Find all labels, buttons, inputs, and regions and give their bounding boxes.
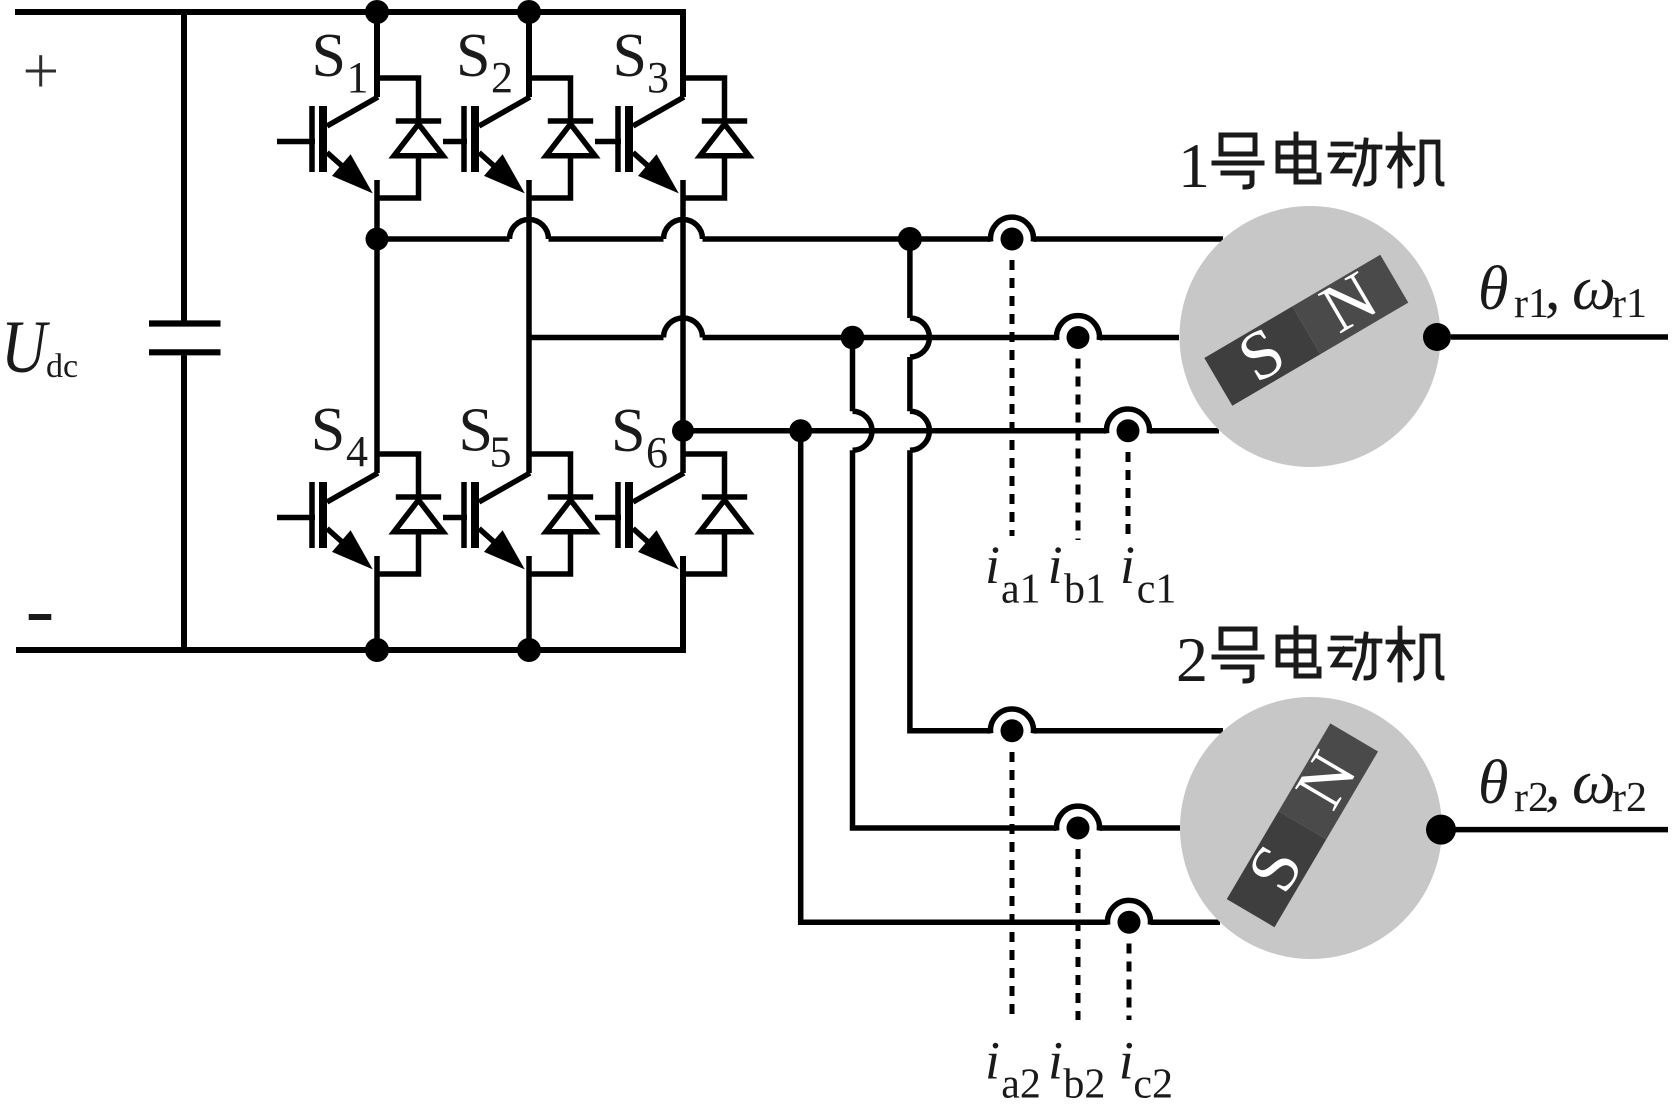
svg-text:S: S (311, 396, 345, 464)
wire DC+ to capacitor (181, 12, 187, 321)
wire M2 shaft output (1455, 827, 1668, 833)
wire motor2 b-phase branch (from phase B down and right) (853, 338, 1181, 829)
motor M1 rotor magnet N pole (1292, 255, 1408, 354)
wire phase-C leg midpoint (S3 emitter to S6 collector) (680, 180, 686, 473)
label + (DC positive) (26, 55, 56, 86)
svg-text:r2: r2 (1514, 775, 1549, 821)
junction dot phase C tap at S3 leg (672, 420, 694, 442)
junction dot DC+ rail / S2 (517, 0, 541, 24)
svg-text:a2: a2 (1001, 1062, 1041, 1108)
junction dot DC- rail / S5 (517, 638, 541, 662)
svg-text:i: i (1119, 1031, 1134, 1091)
wire M1 shaft output (1451, 334, 1668, 340)
svg-text:5: 5 (490, 428, 512, 477)
wire dashed sense line ic2 (1127, 944, 1132, 1021)
junction dot DC- rail / S4 (365, 638, 389, 662)
wire dashed sense line ia2 (1010, 752, 1015, 1020)
wire S2 collector from DC+ (526, 12, 532, 97)
transistor S4 (IGBT) (277, 473, 378, 569)
junction dot phase C to motor2 branch (789, 419, 812, 442)
svg-text:i: i (1048, 1031, 1063, 1091)
svg-text:r1: r1 (1514, 281, 1549, 327)
current sensor ic2 (1108, 900, 1151, 933)
svg-text:3: 3 (647, 53, 669, 102)
wire S5 emitter to DC- rail (526, 556, 532, 650)
svg-text:S: S (312, 22, 346, 90)
wire dashed sense line ib2 (1076, 849, 1081, 1020)
wire motor2 a-phase branch (from phase A down and right) (910, 239, 1223, 731)
motor M2 rotor magnet S pole (1215, 717, 1385, 932)
motor M1 shaft dot (1423, 323, 1451, 351)
motor M2 stator (grey circle) (1180, 697, 1442, 959)
svg-text:2: 2 (491, 53, 513, 102)
svg-text:b1: b1 (1064, 567, 1106, 613)
motor M2 rotor magnet N pole (1279, 723, 1379, 839)
motor M2 shaft dot (1426, 815, 1456, 845)
motor M1 rotor magnet S pole (1198, 243, 1413, 413)
wire phase A (motor 1 a-phase) (377, 220, 1223, 240)
wire capacitor to DC- (181, 355, 187, 650)
current sensor ic1 (1107, 409, 1150, 442)
current sensor ib2 (1057, 806, 1100, 839)
wire phase C (motor 1 c-phase) (683, 428, 1219, 434)
wire motor2 c-phase branch (from phase C down and right) (801, 431, 1220, 922)
wire phase B (motor 1 b-phase) (529, 318, 1179, 337)
svg-text:,: , (1545, 749, 1561, 817)
junction dot DC+ rail / S1 (365, 0, 389, 24)
junction dot phase B to motor2 branch (841, 326, 865, 350)
svg-text:1: 1 (347, 53, 369, 102)
svg-text:dc: dc (46, 348, 78, 385)
svg-text:c2: c2 (1133, 1062, 1173, 1108)
svg-text:θ: θ (1478, 749, 1508, 817)
label theta_r2, omega_r2 (1478, 749, 1647, 821)
svg-text:θ: θ (1478, 255, 1508, 323)
svg-text:ω: ω (1572, 255, 1616, 323)
wire DC- bottom rail with corner up to S6 emitter (16, 556, 683, 650)
transistor S3 (IGBT) (595, 97, 684, 193)
wire phase-A leg midpoint (S1 emitter to S4 collector) (374, 180, 380, 473)
svg-text:c1: c1 (1137, 567, 1177, 613)
junction dot phase A to motor2 branch (898, 227, 922, 251)
wire phase-B leg midpoint (S2 emitter to S5 collector) (526, 180, 532, 473)
wire dashed sense line ib1 (1076, 359, 1081, 541)
svg-text:ω: ω (1572, 749, 1616, 817)
svg-text:i: i (985, 1031, 1000, 1091)
svg-text:2: 2 (1176, 624, 1208, 695)
transistor S2 (IGBT) (443, 97, 530, 193)
svg-text:S: S (611, 397, 645, 465)
svg-text:1: 1 (1178, 130, 1210, 201)
svg-text:r1: r1 (1612, 281, 1647, 327)
motor M1 stator (grey circle) (1180, 206, 1441, 467)
svg-text:b2: b2 (1063, 1062, 1105, 1108)
svg-text:U: U (1, 305, 50, 388)
diode D4 (antiparallel) (377, 454, 443, 574)
svg-text:i: i (1120, 535, 1135, 595)
transistor S6 (IGBT) (595, 473, 684, 569)
label - (DC negative) (29, 614, 52, 620)
transistor S5 (IGBT) (443, 473, 530, 569)
svg-text:r2: r2 (1612, 775, 1647, 821)
svg-text:a1: a1 (1001, 567, 1041, 613)
wire S1 collector from DC+ (374, 12, 380, 97)
wire dashed sense line ic1 (1126, 452, 1131, 540)
diode D1 (antiparallel) (377, 78, 443, 198)
transistor S1 (IGBT) (277, 97, 378, 193)
diode D5 (antiparallel) (529, 454, 595, 574)
diode D6 (antiparallel) (683, 454, 749, 574)
wire S4 emitter to DC- rail (374, 556, 380, 650)
svg-text:6: 6 (646, 428, 668, 477)
wire dashed sense line ia1 (1010, 260, 1015, 536)
svg-text:S: S (613, 22, 647, 90)
diode D2 (antiparallel) (529, 78, 595, 198)
svg-text:i: i (985, 535, 1000, 595)
svg-text:4: 4 (346, 427, 368, 476)
svg-text:,: , (1545, 255, 1561, 323)
junction dot phase A node (366, 228, 389, 251)
svg-text:i: i (1048, 535, 1063, 595)
svg-text:S: S (456, 22, 490, 90)
current sensor ia2 (991, 709, 1034, 742)
capacitor C (DC link) (149, 324, 221, 353)
current sensor ia1 (991, 217, 1034, 250)
svg-text:S: S (459, 397, 493, 465)
wire DC+ top rail with corner down to S3 collector (15, 12, 683, 97)
diode D3 (antiparallel) (683, 78, 749, 198)
label theta_r1, omega_r1 (1478, 255, 1647, 327)
current sensor ib1 (1057, 316, 1100, 349)
